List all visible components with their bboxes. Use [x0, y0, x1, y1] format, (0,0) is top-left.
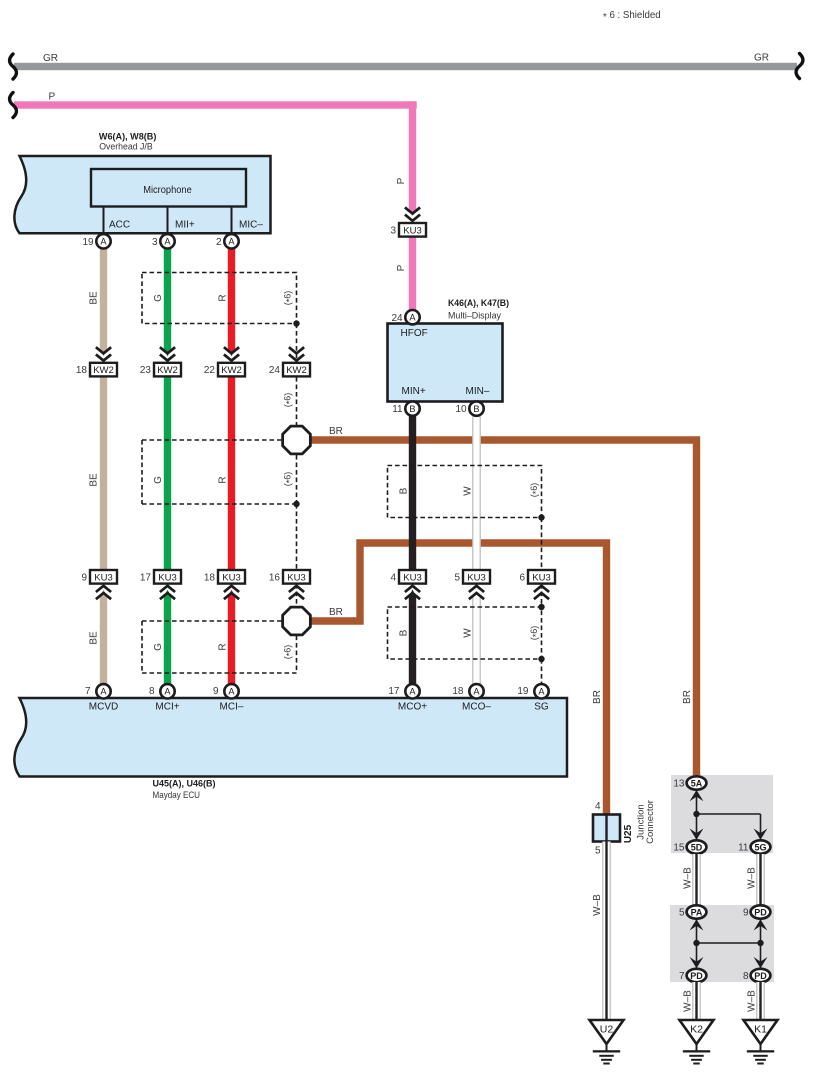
- connector KW2 pin 23: [140, 347, 181, 376]
- wire W-B PD to ground K1: [747, 982, 765, 1020]
- ground K1: [744, 1020, 778, 1065]
- svg-text:A: A: [228, 687, 235, 697]
- svg-text:MIC–: MIC–: [239, 220, 263, 231]
- svg-text:11: 11: [738, 843, 749, 854]
- svg-text:A: A: [409, 313, 416, 323]
- svg-text:W–B: W–B: [747, 990, 758, 1012]
- svg-text:MCO–: MCO–: [462, 702, 491, 713]
- svg-text:W–B: W–B: [683, 867, 694, 889]
- pin row circles J/B: [82, 234, 110, 248]
- svg-text:KU3: KU3: [403, 225, 421, 236]
- pin 8 A MCI+: [149, 684, 180, 712]
- shield box B/W upper (*6): [388, 466, 545, 521]
- ground K2: [680, 1020, 714, 1065]
- connector KU3 pin 5: [454, 570, 490, 599]
- shield box G/R middle (*6): [142, 440, 300, 507]
- svg-text:KW2: KW2: [221, 365, 242, 376]
- svg-text:Multi–Display: Multi–Display: [448, 311, 501, 322]
- svg-text:GR: GR: [754, 53, 769, 64]
- svg-text:Microphone: Microphone: [143, 185, 192, 196]
- svg-text:BR: BR: [682, 690, 693, 704]
- svg-text:B: B: [399, 487, 410, 494]
- svg-text:U45(A), U46(B): U45(A), U46(B): [153, 779, 216, 790]
- wire GR: [10, 53, 803, 80]
- svg-text:K1: K1: [754, 1024, 767, 1036]
- shield box G/R upper (*6): [142, 273, 300, 327]
- svg-text:5: 5: [595, 846, 601, 857]
- svg-text:MCVD: MCVD: [89, 702, 118, 713]
- pin 7 A MCVD: [85, 684, 118, 712]
- svg-text:* 6 : Shielded: * 6 : Shielded: [603, 10, 661, 23]
- svg-text:17: 17: [140, 572, 152, 583]
- junction block 5A/5D/5G: [671, 775, 773, 853]
- svg-text:KU3: KU3: [403, 572, 421, 583]
- svg-text:KW2: KW2: [93, 365, 114, 376]
- svg-text:ACC: ACC: [109, 220, 130, 231]
- junction block W6(A),W8(B) Overhead J/B: [14, 132, 270, 234]
- ground U2: [590, 1020, 624, 1065]
- pin 19 A (ACC): [104, 206, 131, 233]
- svg-text:10: 10: [455, 404, 467, 415]
- pin 10 B: [455, 401, 483, 415]
- pin 24 A: [391, 310, 419, 324]
- svg-text:9: 9: [213, 686, 219, 697]
- connector KU3 pin 6: [519, 570, 555, 599]
- svg-text:Connector: Connector: [645, 800, 656, 844]
- svg-text:G: G: [153, 476, 164, 484]
- svg-text:24: 24: [269, 365, 281, 376]
- svg-text:5A: 5A: [691, 778, 703, 788]
- svg-text:(*6): (*6): [529, 483, 541, 498]
- svg-text:8: 8: [149, 686, 155, 697]
- svg-text:KW2: KW2: [286, 365, 307, 376]
- svg-text:MIN–: MIN–: [466, 386, 490, 397]
- svg-text:G: G: [153, 294, 164, 302]
- display K46(A),K47(B) Multi-Display: [388, 298, 510, 402]
- svg-text:A: A: [409, 687, 416, 697]
- svg-text:19: 19: [82, 237, 94, 248]
- pin 18 A MCO-: [452, 684, 491, 712]
- svg-text:R: R: [218, 476, 229, 483]
- svg-text:BE: BE: [89, 473, 100, 487]
- connector KU3 pin 16: [269, 570, 310, 599]
- connector 5G pin 11: [738, 840, 770, 853]
- svg-text:5G: 5G: [754, 842, 766, 852]
- svg-text:A: A: [164, 687, 171, 697]
- svg-text:BE: BE: [89, 631, 100, 645]
- connector KU3 pin 3 (pink): [390, 207, 426, 236]
- wire R: [218, 248, 236, 684]
- svg-text:PD: PD: [690, 971, 703, 981]
- svg-text:A: A: [100, 237, 107, 247]
- svg-text:GR: GR: [43, 53, 58, 64]
- shield ground octagon 1: [283, 426, 311, 454]
- svg-text:3: 3: [390, 225, 396, 236]
- svg-text:2: 2: [216, 237, 222, 248]
- svg-text:K46(A), K47(B): K46(A), K47(B): [448, 298, 509, 309]
- svg-text:PA: PA: [691, 907, 703, 917]
- svg-text:P: P: [396, 177, 407, 184]
- svg-text:13: 13: [673, 779, 685, 790]
- svg-text:HFOF: HFOF: [401, 328, 428, 339]
- svg-text:SG: SG: [534, 702, 549, 713]
- svg-text:W–B: W–B: [747, 867, 758, 889]
- svg-text:24: 24: [391, 313, 403, 324]
- svg-text:18: 18: [204, 572, 216, 583]
- connector KW2 pin 18: [76, 347, 117, 376]
- svg-text:23: 23: [140, 365, 152, 376]
- svg-text:(*6): (*6): [283, 472, 295, 487]
- svg-text:W: W: [463, 628, 474, 638]
- svg-text:9: 9: [743, 908, 749, 919]
- svg-text:KU3: KU3: [94, 572, 112, 583]
- svg-text:PD: PD: [754, 971, 767, 981]
- svg-text:(*6): (*6): [283, 291, 295, 306]
- svg-text:11: 11: [392, 404, 403, 415]
- svg-text:P: P: [49, 92, 56, 103]
- svg-text:P: P: [396, 264, 407, 271]
- svg-text:W–B: W–B: [683, 990, 694, 1012]
- svg-text:PD: PD: [754, 907, 767, 917]
- svg-text:U2: U2: [600, 1024, 614, 1036]
- connector KU3 pin 18: [204, 570, 245, 599]
- connector PD pin 9: [743, 905, 770, 918]
- svg-text:8: 8: [743, 971, 749, 982]
- svg-text:Overhead J/B: Overhead J/B: [99, 142, 153, 153]
- connector KW2 pin 22: [204, 347, 245, 376]
- svg-text:MII+: MII+: [175, 220, 195, 231]
- svg-text:BE: BE: [89, 291, 100, 305]
- shield line left column: [283, 324, 297, 674]
- svg-text:A: A: [538, 687, 545, 697]
- svg-text:4: 4: [595, 801, 601, 812]
- svg-text:5D: 5D: [691, 842, 703, 852]
- connector PA pin 5: [679, 905, 706, 918]
- connector KU3 pin 9: [81, 570, 117, 599]
- svg-text:R: R: [218, 643, 229, 650]
- svg-text:A: A: [228, 237, 235, 247]
- connector KU3 pin 17: [140, 570, 181, 599]
- svg-text:6: 6: [519, 572, 525, 583]
- junction block PA/PD: [670, 905, 774, 982]
- wire W-B U25 to ground U2: [592, 842, 611, 1021]
- connector 5D pin 15: [673, 840, 706, 853]
- note *6 shielded: [603, 10, 661, 23]
- wire W-B PD to ground K2: [683, 982, 701, 1020]
- svg-text:MCO+: MCO+: [398, 702, 427, 713]
- junction connector U25: [593, 800, 656, 856]
- wire BR shield drain 1: [311, 426, 697, 776]
- svg-text:KU3: KU3: [287, 572, 305, 583]
- pin 2 A (MIC-): [232, 206, 264, 233]
- svg-text:KU3: KU3: [467, 572, 485, 583]
- svg-text:15: 15: [673, 843, 685, 854]
- wire B: [399, 416, 417, 685]
- svg-text:17: 17: [388, 686, 400, 697]
- svg-text:(*6): (*6): [529, 626, 541, 641]
- svg-text:19: 19: [517, 686, 529, 697]
- svg-text:22: 22: [204, 365, 216, 376]
- svg-text:BR: BR: [329, 607, 343, 618]
- svg-text:3: 3: [152, 237, 158, 248]
- svg-text:9: 9: [81, 572, 87, 583]
- svg-text:KU3: KU3: [158, 572, 176, 583]
- svg-text:KW2: KW2: [157, 365, 178, 376]
- svg-text:W: W: [463, 486, 474, 496]
- svg-text:MCI+: MCI+: [155, 702, 179, 713]
- svg-text:W–B: W–B: [592, 894, 603, 916]
- svg-text:18: 18: [452, 686, 464, 697]
- svg-text:U25: U25: [623, 824, 634, 843]
- svg-text:(*6): (*6): [283, 393, 295, 408]
- wire W-B 5D to PA: [683, 854, 701, 905]
- wire BR shield drain 2: [311, 543, 607, 814]
- svg-text:B: B: [409, 404, 415, 414]
- svg-text:MIN+: MIN+: [402, 386, 426, 397]
- svg-text:A: A: [164, 237, 171, 247]
- shield ground octagon 2: [283, 607, 311, 635]
- svg-text:BR: BR: [329, 426, 343, 437]
- svg-text:7: 7: [85, 686, 91, 697]
- wire BE: [89, 248, 108, 684]
- svg-text:KU3: KU3: [222, 572, 240, 583]
- svg-text:18: 18: [76, 365, 88, 376]
- connector PD pin 8: [743, 969, 770, 982]
- svg-text:Mayday ECU: Mayday ECU: [153, 790, 201, 801]
- pin 17 A MCO+: [388, 684, 427, 712]
- svg-text:A: A: [473, 687, 480, 697]
- svg-text:B: B: [399, 629, 410, 636]
- svg-text:A: A: [100, 687, 107, 697]
- wire W: [463, 416, 481, 684]
- svg-text:BR: BR: [592, 690, 603, 704]
- svg-text:G: G: [153, 643, 164, 651]
- shield box B/W lower (*6): [388, 604, 545, 662]
- svg-text:KU3: KU3: [532, 572, 550, 583]
- connector KW2 pin 24: [269, 347, 310, 376]
- svg-text:R: R: [218, 294, 229, 301]
- shield box G/R lower (*6): [142, 621, 297, 673]
- pin 3 A (MII+): [168, 206, 195, 233]
- svg-text:5: 5: [679, 908, 685, 919]
- shield line right column: [541, 518, 543, 685]
- microphone box: [91, 169, 246, 207]
- pin 9 A MCI-: [213, 684, 244, 712]
- svg-text:MCI–: MCI–: [220, 702, 244, 713]
- svg-text:(*6): (*6): [283, 645, 295, 660]
- svg-text:5: 5: [454, 572, 460, 583]
- pin 11 B: [392, 401, 419, 415]
- wire P: [10, 92, 417, 311]
- svg-text:B: B: [473, 404, 479, 414]
- connector PD pin 7: [679, 969, 706, 982]
- connector KU3 pin 4: [390, 570, 426, 599]
- svg-text:K2: K2: [690, 1024, 703, 1036]
- svg-text:7: 7: [679, 971, 685, 982]
- svg-text:4: 4: [390, 572, 396, 583]
- pin 19 A SG: [517, 684, 549, 712]
- ECU U45(A),U46(B) Mayday ECU: [14, 698, 567, 801]
- connector 5A pin 13: [673, 776, 706, 789]
- wire G: [153, 248, 171, 684]
- wire W-B 5G to PD: [747, 854, 765, 905]
- svg-text:16: 16: [269, 572, 281, 583]
